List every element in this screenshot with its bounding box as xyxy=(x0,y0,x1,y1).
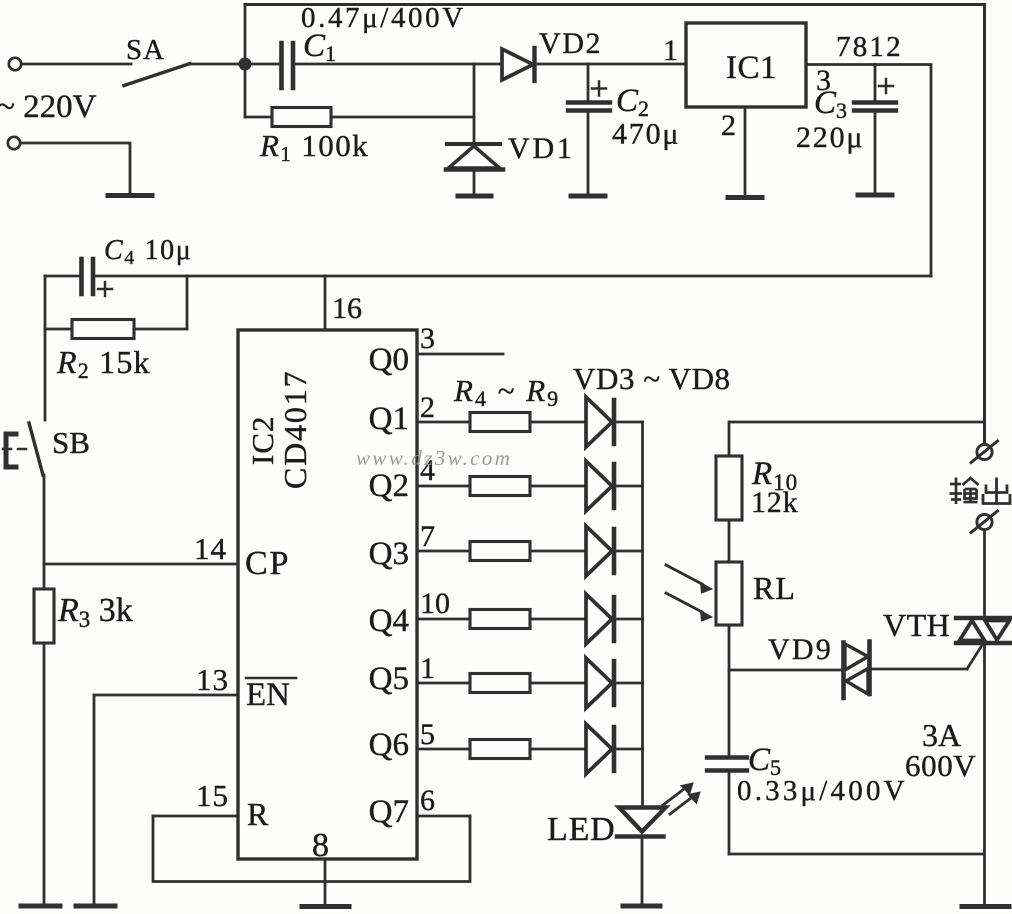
svg-text:www.dz3w.com: www.dz3w.com xyxy=(356,446,512,470)
triac VTH xyxy=(956,618,1011,643)
svg-text:Q5: Q5 xyxy=(369,661,409,697)
svg-text:IC2: IC2 xyxy=(245,416,280,466)
wire xyxy=(22,63,132,66)
regulator IC1 box xyxy=(686,23,806,107)
svg-text:LED: LED xyxy=(547,811,616,848)
wire xyxy=(473,64,476,144)
svg-text:R2 15k: R2 15k xyxy=(56,344,151,383)
capacitor C1 xyxy=(245,43,502,88)
svg-text:14: 14 xyxy=(194,531,227,566)
capacitor C2 xyxy=(568,64,610,194)
svg-text:16: 16 xyxy=(332,292,362,325)
resistor R2 xyxy=(45,276,187,339)
svg-text:Q0: Q0 xyxy=(369,342,409,378)
svg-text:15: 15 xyxy=(196,778,229,813)
resistor R1 xyxy=(245,108,474,127)
wire CP xyxy=(44,563,238,566)
ground xyxy=(108,193,152,198)
pin 2 xyxy=(744,107,747,196)
ground xyxy=(76,904,115,909)
svg-text:Q2: Q2 xyxy=(369,468,409,504)
svg-text:VTH: VTH xyxy=(883,607,950,643)
switch SB xyxy=(3,423,43,475)
svg-text:CD4017: CD4017 xyxy=(277,370,313,489)
label shu (output char1) xyxy=(950,478,979,505)
wire R10 branch xyxy=(730,421,985,424)
ground xyxy=(571,194,605,199)
svg-text:SA: SA xyxy=(126,34,165,66)
wire xyxy=(983,530,986,617)
svg-text:3: 3 xyxy=(420,322,435,355)
capacitor C3 xyxy=(854,65,896,194)
svg-text:R: R xyxy=(247,796,269,832)
svg-text:7: 7 xyxy=(420,520,435,553)
svg-text:EN: EN xyxy=(246,677,290,713)
wire EN xyxy=(94,695,238,905)
plus C4 xyxy=(98,282,112,296)
ground xyxy=(458,194,491,199)
resistor R8 xyxy=(417,674,586,693)
wire gate xyxy=(871,646,982,669)
svg-text:R4 ~ R9: R4 ~ R9 xyxy=(453,373,560,411)
resistor R6 xyxy=(417,542,586,561)
resistor R4 xyxy=(417,413,586,432)
diode VD2 xyxy=(502,48,686,81)
label EN overline xyxy=(246,677,296,680)
wire bottom rail xyxy=(729,853,984,856)
svg-text:10: 10 xyxy=(420,587,450,620)
resistor R5 xyxy=(417,477,586,496)
terminal OUT2 xyxy=(971,511,998,533)
RL arrows xyxy=(666,565,712,621)
diac VD9 xyxy=(844,642,870,699)
wire Q0 xyxy=(417,353,503,356)
svg-text:C4 10μ: C4 10μ xyxy=(104,235,192,269)
svg-text:Q4: Q4 xyxy=(369,603,409,639)
svg-text:600V: 600V xyxy=(905,748,976,783)
IC2 CD4017 box xyxy=(238,330,417,859)
diode VD3 xyxy=(586,397,643,447)
svg-text:Q1: Q1 xyxy=(369,401,409,437)
svg-text:13: 13 xyxy=(196,662,229,697)
capacitor C5 xyxy=(707,670,747,854)
svg-text:RL: RL xyxy=(753,570,796,606)
LED xyxy=(617,808,666,906)
wire pin16 xyxy=(324,276,327,330)
svg-text:IC1: IC1 xyxy=(726,50,777,86)
label chu (output char2) xyxy=(983,478,1010,504)
diode VD1 xyxy=(446,144,503,193)
ground xyxy=(728,195,762,200)
switch SA xyxy=(124,64,190,86)
svg-text:VD3 ~ VD8: VD3 ~ VD8 xyxy=(573,361,731,396)
svg-text:0.47μ/400V: 0.47μ/400V xyxy=(301,2,466,34)
resistor R9 xyxy=(417,740,586,759)
svg-text:Q6: Q6 xyxy=(369,727,409,763)
svg-text:R1 100k: R1 100k xyxy=(259,128,369,166)
plus C2 xyxy=(592,82,606,96)
diode VD4 xyxy=(586,461,643,511)
wire pin3 out xyxy=(806,65,931,277)
ground xyxy=(623,904,660,909)
wire xyxy=(21,143,131,193)
svg-text:Q7: Q7 xyxy=(369,794,409,830)
terminal L1 xyxy=(9,58,21,70)
svg-text:2: 2 xyxy=(420,391,435,424)
svg-text:SB: SB xyxy=(52,425,90,460)
diode VD5 xyxy=(586,526,643,576)
svg-text:VD1: VD1 xyxy=(508,132,575,165)
diode VD6 xyxy=(586,594,643,644)
svg-text:1: 1 xyxy=(420,652,435,685)
svg-text:470μ: 470μ xyxy=(612,118,680,151)
wire VD9 row xyxy=(729,669,843,672)
ground xyxy=(962,904,1009,909)
photoresistor RL xyxy=(716,562,742,670)
svg-text:5: 5 xyxy=(420,718,435,751)
terminal L2 xyxy=(8,137,20,149)
svg-text:6: 6 xyxy=(420,784,435,817)
svg-text:0.33μ/400V: 0.33μ/400V xyxy=(737,775,908,807)
ground xyxy=(21,904,60,909)
wire xyxy=(188,63,245,66)
svg-text:VD2: VD2 xyxy=(539,27,602,60)
resistor R3 xyxy=(34,589,54,905)
svg-text:VD9: VD9 xyxy=(768,633,833,666)
ground xyxy=(302,904,349,909)
ground xyxy=(858,193,892,198)
svg-text:7812: 7812 xyxy=(836,31,903,63)
wire R pin15 loop xyxy=(153,816,470,882)
svg-text:220μ: 220μ xyxy=(796,121,864,154)
LED arrows xyxy=(663,783,700,814)
wire xyxy=(43,475,46,589)
wire cathode bus xyxy=(641,422,644,806)
svg-text:R3 3k: R3 3k xyxy=(57,592,133,632)
diode VD8 xyxy=(586,724,643,774)
svg-text:8: 8 xyxy=(312,827,329,864)
wire top rail xyxy=(245,5,985,445)
wire 12V rail xyxy=(96,275,931,278)
capacitor C4 xyxy=(45,259,93,294)
wire xyxy=(44,276,47,420)
diode VD7 xyxy=(586,658,643,708)
plus C3 xyxy=(879,79,893,93)
resistor R7 xyxy=(417,610,586,629)
svg-text:CP: CP xyxy=(245,545,290,582)
wire Q7 xyxy=(417,815,470,818)
svg-text:1: 1 xyxy=(663,34,678,67)
wire pin8 lead xyxy=(324,859,327,905)
terminal OUT1 xyxy=(971,441,998,463)
svg-text:~ 220V: ~ 220V xyxy=(0,89,97,125)
svg-text:Q3: Q3 xyxy=(369,536,409,572)
svg-text:2: 2 xyxy=(721,109,736,142)
wire xyxy=(983,645,986,905)
resistor R10 xyxy=(716,422,742,562)
svg-text:12k: 12k xyxy=(751,486,798,519)
node A junction xyxy=(239,5,252,118)
